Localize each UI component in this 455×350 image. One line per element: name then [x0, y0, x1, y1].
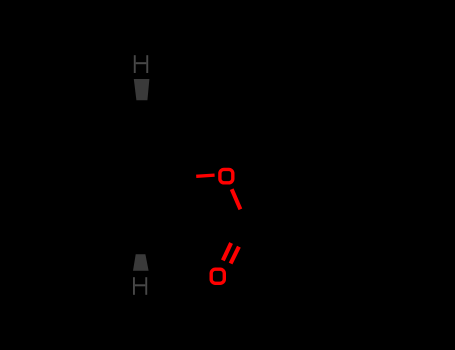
- bond C1-O (oxygen half, red): [196, 175, 214, 176]
- atom label O (carbonyl oxygen, red): [211, 269, 224, 283]
- double bond C=O line 1 (red, oxygen half): [223, 243, 231, 260]
- stereo H label (top, gray): [134, 55, 148, 73]
- stereo H label (bottom, gray): [133, 277, 147, 295]
- bond C6-C5 (black): [60, 177, 88, 215]
- stereo bold wedge (top, dark gray): [134, 79, 150, 100]
- bond C2-C3a (black): [140, 214, 188, 254]
- bond C7-C6 (black): [60, 140, 90, 177]
- stereo bold wedge (bottom, dark gray): [133, 254, 149, 270]
- atom label O (ester oxygen, red): [220, 169, 233, 182]
- bond O-C(=O) carbon half (black): [241, 210, 250, 229]
- double bond C=O line 2 (red, oxygen half): [231, 247, 239, 264]
- bond C1-C2 (black): [177, 177, 188, 214]
- right ring (cyclohexyl/phenyl, black on black): [296, 183, 390, 275]
- bond C7a-C1 (black on black, invisible): [143, 101, 190, 139]
- bond C7a-C7 (black): [90, 101, 143, 140]
- bond C(=O)-ipso of right ring (black): [250, 206, 296, 229]
- bond O-C(=O) oxygen half (red): [232, 189, 241, 209]
- bond C1-O (carbon half, black): [177, 176, 196, 177]
- bond C5-C3a (black): [88, 215, 140, 254]
